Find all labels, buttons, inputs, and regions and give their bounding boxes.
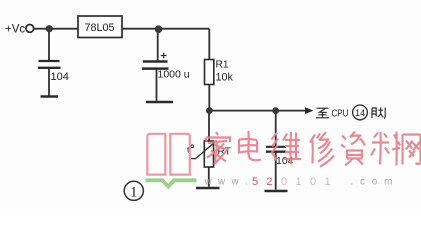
svg-text:78L05: 78L05 xyxy=(85,22,115,34)
wire: C3 bottom plate to ground xyxy=(275,153,277,190)
wire: corner down to R1 xyxy=(208,29,210,60)
ground (C1) xyxy=(41,95,59,98)
figure number circle 1 xyxy=(124,181,143,200)
wire: junction A to 78L05 input xyxy=(50,28,78,30)
svg-text:CPU: CPU xyxy=(332,108,349,119)
wire: 78L05 output to node B and to R1 top corner xyxy=(122,28,209,30)
node C junction dot xyxy=(206,107,213,114)
wire: RT top from node C xyxy=(208,111,210,141)
thermistor RT box xyxy=(204,141,213,167)
watermark char 资 xyxy=(341,132,365,166)
watermark green swoosh xyxy=(146,180,197,186)
wire: R1 bottom to node C xyxy=(208,85,210,111)
svg-text:52: 52 xyxy=(252,176,281,188)
node B junction dot xyxy=(155,25,163,33)
pin 14 circle xyxy=(353,105,368,120)
watermark char 维 xyxy=(271,132,301,165)
capacitor C1 plates xyxy=(39,60,60,62)
capacitor C2 plates xyxy=(143,60,168,62)
arrow to CPU xyxy=(305,110,306,112)
terminal +Vc circle xyxy=(26,25,34,33)
watermark book logo left page xyxy=(147,134,165,175)
watermark char 网 xyxy=(403,135,421,165)
wire: +Vc terminal to junction A xyxy=(34,28,47,30)
watermark char 电 xyxy=(239,131,261,160)
resistor R1 box xyxy=(205,60,214,85)
wire: C2 bottom plate to ground xyxy=(156,70,158,101)
svg-text:0101: 0101 xyxy=(281,176,339,188)
regulator U1 78L05 box xyxy=(78,16,122,38)
capacitor C2 1000u polarity + xyxy=(161,53,167,59)
svg-text:R1: R1 xyxy=(216,60,229,71)
wire: bottom horizontal to arrow xyxy=(209,110,306,112)
label t degree mark xyxy=(191,145,194,148)
node D junction dot xyxy=(272,107,279,114)
ground (C2) xyxy=(146,101,173,104)
thermistor RT diagonal xyxy=(190,141,217,159)
wire: C1 down from junction A xyxy=(48,29,50,60)
watermark char 家 xyxy=(206,132,231,165)
wire: C1 bottom plate to ground xyxy=(48,69,50,96)
wire: C3 down from node D xyxy=(275,111,277,146)
svg-text:com: com xyxy=(360,177,399,188)
svg-text:.: . xyxy=(351,177,354,188)
svg-text:+Vc: +Vc xyxy=(5,24,25,36)
node A junction dot xyxy=(46,25,53,32)
svg-text:.: . xyxy=(245,177,248,188)
label 至 (to) glyph xyxy=(316,108,329,118)
watermark book logo right page xyxy=(170,134,190,175)
watermark char 料 xyxy=(371,132,400,166)
svg-text:10k: 10k xyxy=(216,72,234,84)
label 脚 (pin) glyph xyxy=(372,107,385,118)
ground (RT) xyxy=(196,187,220,190)
watermark char 修 xyxy=(310,132,334,167)
svg-text:1: 1 xyxy=(130,185,138,201)
svg-text:14: 14 xyxy=(355,107,365,118)
svg-text:www: www xyxy=(204,177,245,188)
ground (C3) xyxy=(265,190,288,193)
capacitor C3 plates xyxy=(266,146,286,148)
wire: RT bottom to ground xyxy=(208,167,210,187)
svg-text:104: 104 xyxy=(51,71,69,83)
svg-text:1000 u: 1000 u xyxy=(158,69,190,81)
wire: C2 down from node B xyxy=(157,29,159,61)
